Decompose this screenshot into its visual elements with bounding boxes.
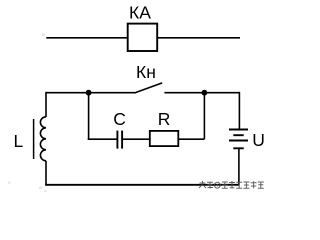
svg-text:Кн: Кн bbox=[136, 62, 156, 82]
svg-text:R: R bbox=[158, 109, 171, 129]
svg-text:L: L bbox=[14, 131, 24, 151]
svg-text:КА: КА bbox=[129, 3, 151, 23]
svg-text:C: C bbox=[113, 109, 126, 129]
svg-text:U: U bbox=[252, 130, 265, 150]
